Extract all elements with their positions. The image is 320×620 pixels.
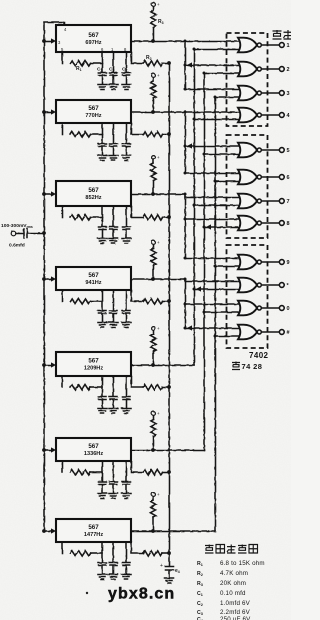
svg-text:567: 567 [88,32,99,39]
svg-text:567: 567 [88,105,99,112]
svg-text:20K ohm: 20K ohm [220,580,246,587]
svg-text:+: + [157,240,160,245]
svg-text:697Hz: 697Hz [85,40,101,46]
svg-text:567: 567 [88,187,99,194]
svg-text:7: 7 [287,199,290,205]
svg-text:+: + [157,326,160,331]
svg-text:0.6mfd: 0.6mfd [9,243,25,249]
svg-text:941Hz: 941Hz [85,280,101,286]
svg-text:567: 567 [88,443,99,450]
svg-text:2: 2 [287,67,290,73]
svg-text:2.2mfd 6V: 2.2mfd 6V [220,609,251,616]
svg-text:+: + [157,155,160,160]
svg-text:567: 567 [88,524,99,531]
svg-text:1209Hz: 1209Hz [84,366,103,372]
svg-text:+: + [157,73,160,78]
svg-text:567: 567 [88,272,99,279]
svg-text:567: 567 [88,358,99,365]
svg-text:+: + [160,563,163,569]
svg-text:74 28: 74 28 [242,362,263,371]
svg-text:1477Hz: 1477Hz [84,532,103,538]
svg-text:0.10 mfd: 0.10 mfd [220,590,246,597]
svg-text:+: + [157,2,160,7]
svg-text:+: + [157,492,160,497]
svg-text:+: + [157,411,160,416]
svg-text:4.7K ohm: 4.7K ohm [220,570,248,577]
svg-text:ybx8.cn: ybx8.cn [108,586,175,603]
svg-text:1336Hz: 1336Hz [84,451,103,457]
svg-text:0: 0 [287,306,290,312]
svg-text:6.8 to 15K ohm: 6.8 to 15K ohm [220,560,265,567]
svg-text:1: 1 [287,43,290,49]
svg-text:1.0mfd 6V: 1.0mfd 6V [220,600,251,607]
svg-text:770Hz: 770Hz [85,113,101,119]
svg-text:7402: 7402 [249,351,269,360]
svg-text:3: 3 [287,91,290,97]
svg-text:#: # [287,330,290,336]
svg-text:8: 8 [287,221,290,227]
svg-text:250 μF 6V: 250 μF 6V [220,616,251,620]
svg-text:5: 5 [287,148,290,154]
svg-text:852Hz: 852Hz [85,195,101,201]
svg-text:6: 6 [287,175,290,181]
svg-text:9: 9 [287,260,290,266]
